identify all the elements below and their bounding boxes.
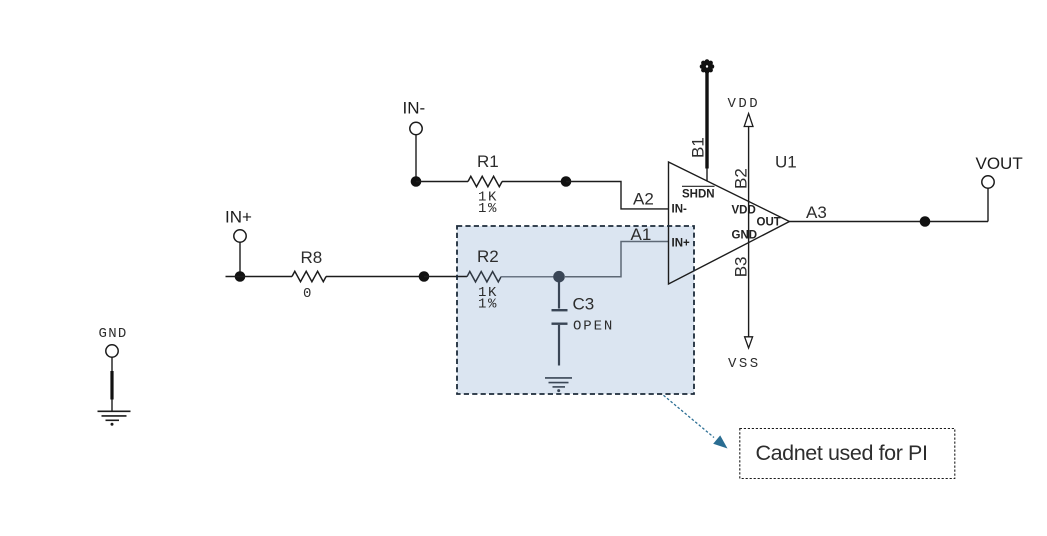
wire R8 to node [326, 276, 424, 278]
wire A2 net [566, 182, 669, 209]
svg-text:VOUT: VOUT [976, 154, 1023, 173]
svg-text:IN+: IN+ [225, 208, 252, 227]
power VDD arrow [728, 96, 761, 127]
wire IN+ terminal stub [239, 242, 241, 276]
highlight box fill [457, 226, 694, 394]
wire node to R2 [424, 276, 467, 278]
op-amp U1 [669, 162, 790, 284]
svg-text:IN-: IN- [672, 204, 688, 216]
wire GND stub [111, 357, 113, 411]
svg-text:VSS: VSS [728, 356, 761, 372]
port IN+ [225, 208, 252, 243]
svg-text:SHDN: SHDN [682, 189, 715, 201]
port VOUT [976, 154, 1023, 188]
wire IN+ net to R8 [226, 276, 293, 278]
svg-text:C3: C3 [573, 295, 595, 314]
svg-text:IN-: IN- [403, 99, 426, 118]
svg-text:IN+: IN+ [672, 238, 691, 250]
wire IN- terminal stub [415, 135, 417, 182]
wire R1 to node [502, 181, 566, 183]
svg-text:B2: B2 [732, 168, 751, 189]
callout text box [740, 429, 955, 479]
svg-text:Cadnet used for PI: Cadnet used for PI [756, 441, 928, 465]
svg-text:OPEN: OPEN [573, 319, 614, 335]
svg-text:1%: 1% [478, 297, 498, 313]
node A2 junction [561, 176, 572, 187]
svg-text:OUT: OUT [757, 217, 781, 229]
node B1 top connection marker [700, 59, 715, 74]
node C3 junction [553, 271, 565, 283]
capacitor C3 [552, 282, 615, 366]
svg-text:B3: B3 [732, 257, 751, 278]
svg-text:A1: A1 [631, 225, 652, 244]
svg-text:GND: GND [732, 230, 758, 242]
node VOUT junction [920, 216, 931, 227]
svg-text:B1: B1 [689, 137, 708, 158]
pin SHDN [682, 186, 715, 200]
wire R2 to C3 node [501, 276, 554, 278]
svg-text:GND: GND [99, 326, 128, 342]
ground (C3) [545, 378, 572, 392]
resistor R1 [468, 152, 502, 217]
svg-text:A3: A3 [806, 203, 827, 222]
wire A1 net [564, 242, 669, 277]
ground symbol [98, 411, 131, 425]
wire B2 B3 power rail [748, 127, 750, 338]
svg-text:A2: A2 [633, 190, 654, 209]
svg-text:R8: R8 [301, 248, 323, 267]
node IN- junction [411, 176, 422, 187]
callout arrow [664, 395, 728, 448]
svg-text:U1: U1 [775, 153, 797, 172]
power VSS arrow [728, 337, 761, 372]
wire VOUT terminal stub [987, 188, 989, 221]
wire A3 output net [789, 221, 988, 223]
svg-text:R2: R2 [477, 247, 499, 266]
svg-text:VDD: VDD [732, 205, 756, 217]
node junction left of R2 [419, 271, 430, 282]
wire IN- to R1 [416, 181, 468, 183]
port GND [99, 326, 128, 357]
svg-text:1%: 1% [478, 201, 498, 217]
wire GND net thick segment [110, 371, 113, 400]
highlight box dashed border [457, 226, 694, 394]
port IN- [403, 99, 426, 135]
svg-text:VDD: VDD [728, 96, 761, 112]
node IN+ junction [235, 271, 246, 282]
svg-text:R1: R1 [477, 152, 499, 171]
svg-text:0: 0 [303, 286, 311, 302]
resistor R2 [467, 247, 501, 313]
wire B1 [705, 67, 708, 169]
resistor R8 [292, 248, 326, 302]
